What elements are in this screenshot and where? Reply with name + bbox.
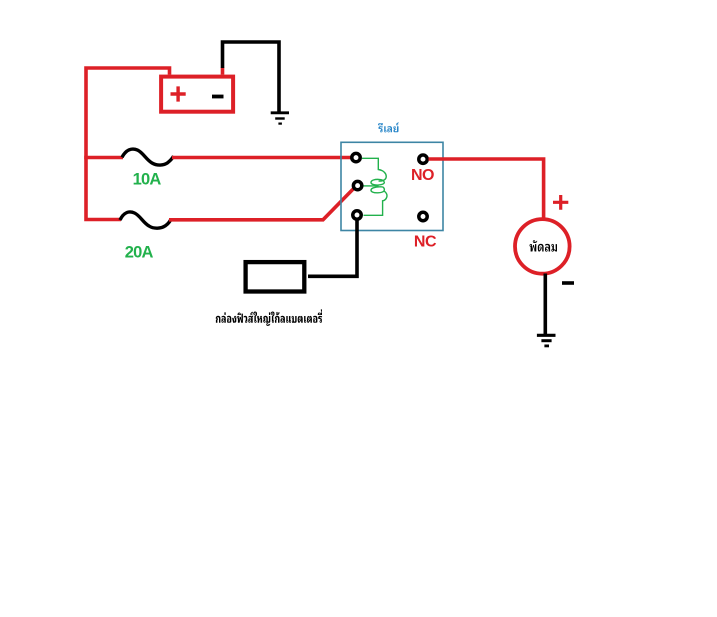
relay terminal ML (common): [353, 181, 361, 189]
relay terminal NO: [419, 155, 427, 163]
svg-text:NO: NO: [411, 167, 434, 184]
fan M1 circle: [515, 219, 570, 274]
wire battery negative to ground: [223, 42, 280, 112]
battery minus sign: [212, 95, 224, 99]
wire NO to fan: [429, 159, 544, 220]
ground fan: [537, 335, 556, 346]
relay terminal NC: [419, 212, 427, 220]
wire 10A to relay: [172, 156, 352, 160]
wire relay BL to fuse box: [308, 220, 357, 277]
relay coil (green): [362, 158, 387, 215]
relay terminal BL: [353, 211, 361, 219]
wire 20A to relay switch arm: [169, 188, 355, 220]
wire red stub battery negative: [221, 68, 225, 75]
wire fan to ground: [543, 274, 547, 335]
label plus at fan: [553, 195, 568, 210]
fuse F1 10A squiggle: [122, 149, 174, 165]
wire 10A branch left: [84, 156, 123, 160]
label fuse box Thai: [216, 309, 322, 326]
label relay Thai: [378, 123, 399, 133]
fuse box: [246, 262, 305, 291]
label minus at fan: [562, 281, 574, 285]
battery B1: [161, 77, 233, 112]
fuse F2 20A squiggle: [120, 212, 171, 228]
wire battery positive loop to fuse bus: [86, 68, 170, 220]
ground battery: [271, 113, 289, 124]
relay box: [341, 142, 443, 230]
label fan Thai: [530, 240, 558, 251]
svg-text:NC: NC: [414, 233, 437, 250]
svg-text:20A: 20A: [125, 244, 154, 262]
svg-text:10A: 10A: [133, 171, 162, 189]
relay terminal TL: [352, 153, 360, 161]
battery plus sign: [171, 86, 186, 101]
